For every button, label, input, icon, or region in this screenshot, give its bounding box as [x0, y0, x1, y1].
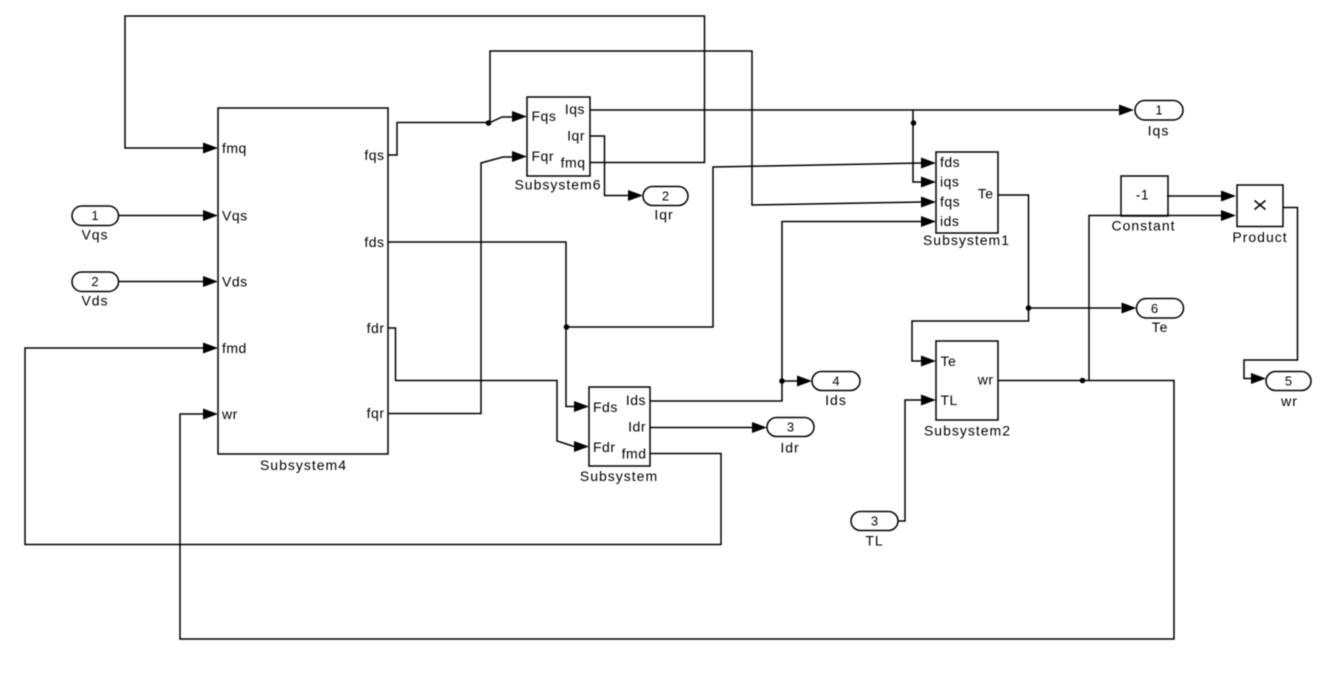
svg-text:Subsystem6: Subsystem6: [514, 177, 601, 193]
svg-text:Vqs: Vqs: [81, 227, 108, 243]
svg-text:wr: wr: [1280, 393, 1298, 409]
svg-text:Vds: Vds: [222, 274, 248, 290]
svg-text:Fqs: Fqs: [532, 108, 557, 124]
svg-text:2: 2: [662, 188, 669, 203]
svg-text:wr: wr: [221, 406, 238, 422]
svg-text:1: 1: [1155, 103, 1162, 118]
svg-text:fmd: fmd: [222, 340, 247, 356]
svg-text:-1: -1: [1136, 187, 1149, 203]
svg-text:fqr: fqr: [367, 405, 385, 421]
svg-text:fdr: fdr: [367, 320, 385, 336]
svg-text:TL: TL: [865, 533, 883, 549]
svg-text:Iqr: Iqr: [567, 128, 585, 144]
svg-text:Product: Product: [1232, 229, 1287, 245]
svg-text:Iqs: Iqs: [1148, 123, 1170, 139]
svg-text:Subsystem4: Subsystem4: [260, 457, 347, 473]
svg-text:6: 6: [1151, 301, 1158, 316]
svg-text:Ids: Ids: [825, 392, 847, 408]
svg-text:3: 3: [787, 419, 794, 434]
svg-text:Iqr: Iqr: [654, 207, 673, 223]
svg-text:Ids: Ids: [626, 392, 646, 408]
svg-text:fmq: fmq: [222, 140, 247, 156]
svg-text:Iqs: Iqs: [565, 101, 585, 117]
svg-text:Te: Te: [941, 353, 957, 369]
svg-text:fmd: fmd: [622, 446, 647, 462]
svg-text:3: 3: [871, 513, 878, 528]
svg-text:Subsystem: Subsystem: [580, 468, 658, 484]
svg-text:4: 4: [832, 373, 839, 388]
svg-text:2: 2: [91, 274, 98, 289]
svg-text:Vqs: Vqs: [222, 208, 248, 224]
svg-text:Subsystem2: Subsystem2: [924, 423, 1011, 439]
svg-text:Fdr: Fdr: [593, 439, 616, 455]
svg-text:Fqr: Fqr: [532, 148, 555, 164]
svg-text:TL: TL: [941, 392, 958, 408]
svg-text:fds: fds: [940, 154, 960, 170]
svg-text:Idr: Idr: [780, 440, 799, 456]
svg-text:fqs: fqs: [940, 194, 960, 210]
svg-text:5: 5: [1285, 373, 1292, 388]
svg-text:Subsystem1: Subsystem1: [923, 232, 1010, 248]
svg-text:fmq: fmq: [561, 155, 586, 171]
svg-text:fds: fds: [364, 234, 384, 250]
svg-text:iqs: iqs: [940, 174, 959, 190]
svg-text:fqs: fqs: [364, 147, 384, 163]
svg-text:Te: Te: [1152, 319, 1169, 335]
svg-text:Fds: Fds: [593, 399, 618, 415]
svg-text:Constant: Constant: [1111, 218, 1175, 234]
svg-text:ids: ids: [940, 213, 959, 229]
svg-text:wr: wr: [977, 372, 994, 388]
svg-text:1: 1: [91, 208, 98, 223]
svg-text:Idr: Idr: [628, 419, 646, 435]
svg-text:Vds: Vds: [81, 293, 108, 309]
svg-text:Te: Te: [978, 186, 994, 202]
